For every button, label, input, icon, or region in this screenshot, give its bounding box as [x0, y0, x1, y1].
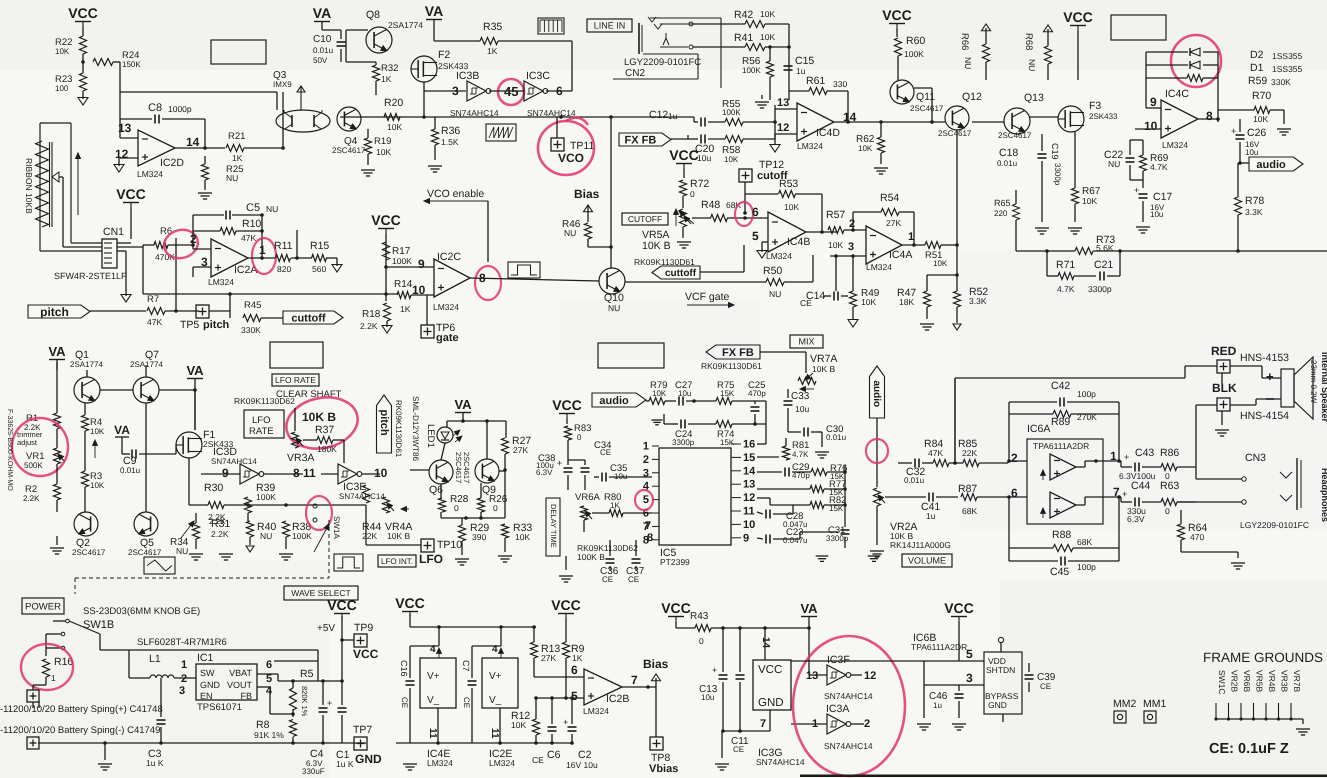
svg-text:100K: 100K	[292, 531, 312, 541]
svg-text:470p: 470p	[748, 389, 766, 398]
svg-text:2SA1774: 2SA1774	[388, 20, 423, 30]
svg-text:1u: 1u	[933, 701, 942, 710]
svg-text:10K: 10K	[515, 532, 530, 542]
svg-text:220: 220	[994, 209, 1008, 218]
svg-text:47K: 47K	[241, 233, 256, 243]
svg-text:4: 4	[492, 644, 498, 655]
svg-text:TP9: TP9	[354, 622, 373, 634]
svg-text:+: +	[327, 698, 332, 708]
svg-text:R54: R54	[880, 192, 899, 204]
svg-text:VCC: VCC	[68, 5, 98, 21]
svg-text:IC1: IC1	[197, 652, 214, 664]
svg-text:-11200/10/20 Battery Sping(+): -11200/10/20 Battery Sping(+) C41748	[0, 704, 163, 715]
svg-text:VR3B: VR3B	[1280, 670, 1290, 693]
svg-text:68K: 68K	[1077, 537, 1092, 547]
svg-text:7: 7	[631, 673, 638, 687]
svg-text:500K: 500K	[24, 461, 43, 470]
svg-text:R26: R26	[489, 494, 508, 505]
svg-text:1u K: 1u K	[146, 758, 164, 768]
svg-text:1: 1	[643, 441, 649, 453]
svg-text:LM324: LM324	[766, 251, 792, 261]
svg-text:4: 4	[430, 644, 436, 655]
svg-text:1u: 1u	[668, 111, 678, 121]
svg-text:11: 11	[303, 466, 316, 480]
svg-text:LM324: LM324	[583, 706, 609, 716]
svg-text:C10: C10	[313, 34, 332, 45]
svg-text:14: 14	[743, 465, 756, 477]
svg-text:D2: D2	[1250, 49, 1264, 61]
svg-text:IC3B: IC3B	[456, 70, 479, 82]
svg-text:R36: R36	[441, 125, 460, 137]
svg-text:1K: 1K	[487, 46, 498, 56]
svg-text:10K: 10K	[1082, 196, 1097, 206]
svg-text:R21: R21	[228, 131, 245, 142]
svg-text:adjust: adjust	[17, 438, 38, 447]
svg-text:1000p: 1000p	[168, 104, 192, 114]
svg-text:SN74AHC14: SN74AHC14	[824, 741, 873, 751]
svg-text:12: 12	[864, 670, 876, 682]
svg-text:+: +	[1231, 126, 1236, 136]
svg-text:50V: 50V	[313, 56, 328, 65]
svg-text:NU: NU	[769, 289, 781, 299]
svg-text:2: 2	[864, 718, 870, 730]
svg-text:cuttoff: cuttoff	[665, 268, 697, 279]
svg-text:13: 13	[743, 479, 755, 491]
svg-text:Vbias: Vbias	[649, 763, 678, 775]
svg-text:LGY2209-0101FC: LGY2209-0101FC	[624, 57, 701, 68]
svg-text:C21: C21	[1094, 259, 1113, 271]
svg-text:CN1: CN1	[103, 226, 124, 238]
svg-text:SN74AHC14: SN74AHC14	[339, 492, 385, 501]
svg-text:560: 560	[312, 264, 326, 274]
svg-text:cuttoff: cuttoff	[291, 312, 326, 324]
svg-text:-11200/10/20 Battery Sping(-): -11200/10/20 Battery Sping(-) C41749	[0, 725, 160, 736]
svg-text:100K B: 100K B	[577, 552, 605, 562]
svg-text:0.01u: 0.01u	[826, 433, 846, 442]
svg-text:C5: C5	[246, 202, 260, 214]
svg-text:CE: 0.1uF Z: CE: 0.1uF Z	[1209, 741, 1289, 757]
svg-text:R48: R48	[701, 199, 720, 211]
svg-text:SLF6028T-4R7M1R6: SLF6028T-4R7M1R6	[137, 637, 227, 648]
svg-text:F3: F3	[1089, 100, 1101, 112]
svg-text:R66: R66	[959, 33, 970, 50]
svg-text:Q12: Q12	[962, 91, 982, 103]
svg-text:+: +	[712, 665, 717, 675]
svg-text:MM2: MM2	[1113, 698, 1136, 710]
svg-text:5: 5	[966, 647, 973, 661]
svg-text:audio: audio	[599, 395, 629, 407]
svg-text:91K 1%: 91K 1%	[254, 730, 284, 740]
svg-text:2SC4617: 2SC4617	[332, 146, 366, 155]
svg-text:BLK: BLK	[1212, 381, 1237, 395]
svg-text:9: 9	[1150, 95, 1157, 109]
svg-text:CE: CE	[600, 448, 611, 457]
svg-text:9: 9	[743, 532, 749, 544]
svg-text:+5V: +5V	[317, 623, 335, 634]
svg-text:V+: V+	[489, 671, 502, 682]
svg-text:2SC4617: 2SC4617	[910, 104, 944, 113]
svg-text:IC6A: IC6A	[1027, 423, 1050, 435]
svg-text:C33: C33	[791, 391, 810, 402]
svg-text:NU: NU	[564, 228, 576, 238]
svg-text:FX FB: FX FB	[625, 134, 657, 146]
svg-text:IC3F: IC3F	[827, 654, 850, 666]
svg-text:10K: 10K	[387, 122, 402, 132]
svg-text:VCC: VCC	[353, 647, 379, 661]
svg-text:VCC: VCC	[395, 595, 425, 611]
svg-text:3: 3	[848, 241, 854, 253]
svg-text:10K: 10K	[1253, 114, 1268, 124]
svg-text:C7: C7	[461, 660, 471, 672]
svg-text:+: +	[563, 717, 568, 727]
svg-text:R5: R5	[300, 668, 314, 680]
svg-text:+: +	[1134, 185, 1139, 195]
svg-text:R45: R45	[244, 300, 261, 311]
svg-text:LFO: LFO	[252, 415, 270, 426]
svg-text:IC4D: IC4D	[816, 127, 840, 139]
svg-text:SFW4R-2STE1LF: SFW4R-2STE1LF	[54, 271, 127, 281]
svg-text:R37: R37	[315, 424, 334, 436]
svg-text:5: 5	[266, 673, 272, 685]
svg-text:VA: VA	[800, 601, 818, 616]
svg-text:15K: 15K	[720, 438, 735, 447]
svg-text:IC2C: IC2C	[437, 251, 461, 263]
svg-text:1.5K: 1.5K	[441, 137, 459, 147]
svg-text:Bias: Bias	[643, 657, 669, 671]
svg-text:0: 0	[699, 636, 704, 646]
svg-text:15K: 15K	[720, 389, 735, 398]
svg-text:R10: R10	[242, 218, 261, 230]
svg-text:16V 10u: 16V 10u	[566, 760, 598, 770]
svg-text:10K B: 10K B	[642, 240, 671, 252]
svg-text:NU: NU	[176, 546, 188, 556]
svg-text:F2: F2	[438, 49, 450, 61]
svg-text:27K: 27K	[541, 653, 556, 663]
svg-text:10u: 10u	[701, 693, 714, 702]
svg-text:VR3A: VR3A	[287, 452, 314, 464]
svg-text:+: +	[557, 458, 562, 468]
svg-text:1K: 1K	[381, 74, 392, 84]
svg-text:RIBBON 10KB: RIBBON 10KB	[24, 158, 34, 214]
svg-text:NU: NU	[226, 173, 238, 183]
svg-text:VCO enable: VCO enable	[427, 188, 484, 200]
svg-text:VOLUME: VOLUME	[908, 556, 946, 566]
svg-text:TPA6111A2DR: TPA6111A2DR	[1033, 441, 1089, 451]
svg-text:1K: 1K	[610, 501, 620, 510]
svg-text:R41: R41	[734, 32, 753, 44]
svg-text:C44: C44	[1131, 480, 1150, 492]
svg-text:+: +	[1124, 452, 1129, 462]
svg-text:VCC: VCC	[882, 7, 912, 23]
svg-text:470: 470	[1190, 532, 1204, 542]
svg-text:D1: D1	[1250, 62, 1264, 74]
svg-text:5: 5	[643, 494, 649, 506]
svg-text:CE: CE	[1040, 682, 1051, 691]
svg-text:+: +	[1122, 489, 1127, 499]
svg-text:1: 1	[51, 673, 56, 683]
svg-text:LM324: LM324	[433, 302, 459, 312]
svg-text:2: 2	[1011, 451, 1018, 465]
svg-text:820K 1%: 820K 1%	[300, 686, 309, 717]
svg-text:12: 12	[115, 147, 129, 161]
svg-text:23mm 0.2W: 23mm 0.2W	[1309, 360, 1318, 404]
svg-text:10K: 10K	[784, 202, 799, 212]
svg-text:RK09K1130D61: RK09K1130D61	[394, 400, 403, 458]
svg-text:10K: 10K	[55, 47, 70, 56]
svg-text:pitch: pitch	[40, 305, 69, 319]
svg-text:VCC: VCC	[551, 597, 581, 613]
svg-text:VOUT: VOUT	[227, 680, 253, 690]
svg-text:10K: 10K	[511, 720, 526, 730]
svg-text:2SC4617: 2SC4617	[454, 452, 463, 483]
svg-text:10K: 10K	[933, 259, 948, 268]
svg-text:LM324: LM324	[1162, 140, 1188, 150]
svg-text:11: 11	[427, 728, 438, 739]
svg-text:VR6B: VR6B	[1242, 670, 1252, 693]
svg-text:68K: 68K	[962, 506, 977, 516]
svg-text:RATE: RATE	[249, 426, 274, 437]
svg-text:10K: 10K	[90, 427, 105, 436]
svg-text:3: 3	[966, 671, 973, 685]
svg-text:VCC: VCC	[371, 212, 401, 228]
svg-text:3300p: 3300p	[672, 438, 695, 447]
svg-text:SN74AHC14: SN74AHC14	[824, 691, 873, 701]
svg-text:13: 13	[806, 670, 818, 682]
svg-text:VCC: VCC	[116, 186, 146, 202]
svg-text:R65: R65	[994, 198, 1011, 208]
svg-text:12: 12	[777, 122, 789, 134]
svg-text:R71: R71	[1056, 259, 1075, 271]
svg-text:11: 11	[489, 728, 500, 739]
svg-text:8: 8	[1206, 109, 1213, 123]
svg-text:gate: gate	[436, 332, 459, 344]
svg-text:SW1C: SW1C	[1217, 670, 1227, 695]
svg-text:6: 6	[752, 205, 759, 219]
svg-text:14: 14	[186, 135, 200, 149]
svg-text:VA: VA	[313, 5, 331, 21]
svg-text:SML-D12Y3WT86: SML-D12Y3WT86	[411, 396, 420, 461]
svg-text:VCC: VCC	[758, 664, 782, 676]
svg-text:NU: NU	[260, 531, 272, 541]
svg-text:Q8: Q8	[366, 9, 380, 21]
svg-text:6: 6	[571, 663, 578, 677]
svg-text:LGY2209-0101FC: LGY2209-0101FC	[1240, 520, 1309, 530]
svg-text:1K: 1K	[400, 304, 411, 314]
svg-text:POWER: POWER	[25, 601, 61, 612]
svg-text:CN2: CN2	[625, 68, 645, 79]
svg-text:1: 1	[181, 659, 187, 671]
svg-text:LFO: LFO	[419, 552, 443, 566]
svg-text:R89: R89	[1051, 416, 1070, 428]
svg-text:100K: 100K	[742, 66, 761, 75]
svg-text:R53: R53	[779, 178, 798, 190]
svg-text:2: 2	[849, 218, 855, 230]
svg-text:6.3V: 6.3V	[1127, 514, 1145, 524]
svg-text:LED1: LED1	[425, 424, 436, 448]
svg-text:R7: R7	[147, 294, 159, 305]
svg-text:3300p: 3300p	[1088, 284, 1112, 294]
svg-text:IC4B: IC4B	[787, 236, 810, 248]
svg-text:1u K: 1u K	[336, 759, 354, 769]
svg-text:R50: R50	[763, 265, 782, 277]
svg-text:LM324: LM324	[208, 277, 234, 287]
svg-text:1: 1	[259, 243, 266, 257]
svg-text:4.7K: 4.7K	[792, 450, 809, 459]
svg-text:C43: C43	[1135, 447, 1154, 459]
svg-text:330K: 330K	[1271, 77, 1291, 87]
svg-text:R18: R18	[362, 309, 381, 320]
svg-text:R70: R70	[1252, 90, 1271, 102]
svg-text:NU: NU	[1108, 159, 1120, 169]
svg-text:10K B: 10K B	[302, 410, 336, 424]
svg-text:2SK433: 2SK433	[1089, 112, 1118, 121]
svg-text:SN74AHC14: SN74AHC14	[756, 757, 805, 767]
svg-text:9: 9	[418, 257, 425, 271]
svg-text:0.01u: 0.01u	[904, 476, 924, 485]
svg-text:R35: R35	[483, 21, 502, 33]
svg-text:VCF gate: VCF gate	[685, 291, 730, 303]
svg-text:Q13: Q13	[1024, 92, 1044, 104]
svg-text:VCC: VCC	[1063, 9, 1093, 25]
svg-text:LFO INT.: LFO INT.	[381, 557, 413, 566]
svg-text:V+: V+	[427, 671, 440, 682]
svg-text:10: 10	[374, 466, 388, 480]
svg-text:5: 5	[752, 229, 759, 243]
svg-text:10: 10	[1144, 119, 1158, 133]
svg-text:GND: GND	[200, 680, 221, 690]
svg-text:IC3A: IC3A	[826, 703, 849, 715]
svg-text:R19: R19	[374, 136, 391, 147]
svg-text:R20: R20	[384, 97, 403, 109]
svg-text:16: 16	[743, 439, 755, 451]
svg-text:PT2399: PT2399	[660, 557, 690, 567]
svg-text:LM324: LM324	[797, 141, 823, 151]
svg-text:GND: GND	[988, 700, 1007, 710]
svg-text:1u: 1u	[926, 511, 936, 521]
svg-text:pitch: pitch	[203, 319, 230, 331]
svg-text:1u: 1u	[796, 66, 806, 76]
svg-text:R88: R88	[1052, 529, 1071, 541]
svg-text:IC3C: IC3C	[526, 70, 550, 82]
svg-text:0.01u: 0.01u	[120, 466, 140, 475]
svg-text:2SC4617: 2SC4617	[938, 129, 972, 138]
svg-text:CE: CE	[602, 575, 613, 584]
svg-text:11: 11	[743, 506, 755, 518]
svg-text:6: 6	[266, 659, 272, 671]
svg-text:0.01u: 0.01u	[313, 46, 333, 55]
svg-text:CE: CE	[800, 298, 812, 308]
svg-text:R15: R15	[310, 240, 329, 252]
svg-text:MM1: MM1	[1143, 698, 1166, 710]
svg-text:100K: 100K	[722, 108, 741, 117]
svg-text:2SC4617: 2SC4617	[72, 548, 106, 557]
svg-text:VCC: VCC	[327, 597, 357, 613]
svg-text:10: 10	[743, 519, 755, 531]
svg-text:10u: 10u	[1245, 148, 1258, 157]
svg-text:R61: R61	[806, 75, 825, 87]
svg-text:DELAY TIME: DELAY TIME	[549, 504, 558, 548]
svg-text:27K: 27K	[886, 218, 901, 228]
svg-text:TPS61071: TPS61071	[197, 702, 242, 713]
svg-text:VA: VA	[114, 423, 130, 437]
svg-text:100K: 100K	[904, 49, 924, 59]
svg-text:HNS-4154: HNS-4154	[1240, 410, 1289, 422]
svg-text:SN74AHC14: SN74AHC14	[211, 457, 257, 466]
svg-text:Internal Speaker: Internal Speaker	[1320, 352, 1327, 423]
svg-text:C18: C18	[999, 147, 1018, 159]
svg-text:13: 13	[118, 121, 132, 135]
svg-text:390: 390	[472, 532, 486, 542]
svg-text:10K: 10K	[760, 9, 775, 19]
svg-text:RK14J11A000G: RK14J11A000G	[890, 540, 951, 550]
svg-text:NU: NU	[1027, 59, 1037, 71]
svg-text:4.7K: 4.7K	[1150, 162, 1168, 172]
svg-text:22K: 22K	[962, 448, 977, 458]
svg-text:22K: 22K	[362, 531, 377, 541]
svg-text:2.2K: 2.2K	[23, 494, 40, 503]
svg-text:VA: VA	[454, 397, 472, 412]
svg-text:FB: FB	[240, 691, 252, 701]
svg-text:7: 7	[760, 718, 766, 730]
svg-text:VCC: VCC	[944, 600, 974, 616]
svg-text:R28: R28	[450, 494, 469, 505]
svg-text:10K: 10K	[724, 155, 739, 164]
svg-text:+: +	[1266, 369, 1274, 384]
svg-text:VR4B: VR4B	[1267, 670, 1277, 693]
svg-text:0.047u: 0.047u	[783, 536, 807, 545]
svg-text:HNS-4153: HNS-4153	[1240, 352, 1289, 364]
svg-text:0: 0	[690, 189, 695, 199]
svg-text:10K: 10K	[858, 144, 873, 153]
svg-text:7: 7	[643, 521, 649, 533]
svg-text:8: 8	[293, 466, 300, 480]
svg-text:R78: R78	[1245, 195, 1264, 207]
svg-text:3: 3	[179, 685, 185, 697]
svg-text:1: 1	[908, 231, 914, 243]
svg-text:0.01u: 0.01u	[997, 159, 1017, 168]
svg-text:pitch: pitch	[378, 410, 390, 437]
svg-text:LFO RATE: LFO RATE	[275, 375, 316, 385]
svg-text:0: 0	[454, 503, 459, 513]
svg-text:0: 0	[493, 503, 498, 513]
svg-text:10K: 10K	[861, 297, 876, 307]
svg-text:2SA1774: 2SA1774	[70, 360, 103, 369]
svg-text:VCC: VCC	[669, 147, 699, 163]
svg-text:150K: 150K	[122, 60, 141, 69]
svg-text:R14: R14	[394, 279, 413, 290]
svg-text:R86: R86	[1160, 447, 1179, 459]
svg-text:GND: GND	[355, 752, 382, 766]
svg-text:C42: C42	[1051, 380, 1070, 392]
svg-text:C12: C12	[649, 109, 668, 121]
svg-text:CE: CE	[733, 745, 744, 754]
svg-text:4.7K: 4.7K	[1057, 284, 1075, 294]
svg-text:MIX: MIX	[798, 337, 814, 347]
svg-text:R42: R42	[734, 9, 753, 21]
svg-text:C6: C6	[547, 749, 561, 761]
svg-text:100p: 100p	[1077, 389, 1096, 399]
svg-text:IC4C: IC4C	[1165, 88, 1189, 100]
svg-text:R11: R11	[274, 240, 293, 252]
svg-text:180K: 180K	[317, 444, 337, 454]
svg-text:2SA1774: 2SA1774	[130, 360, 163, 369]
svg-text:6: 6	[1011, 486, 1018, 500]
svg-text:8: 8	[643, 534, 649, 546]
svg-text:VCC: VCC	[552, 397, 582, 413]
svg-text:1SS355: 1SS355	[1272, 64, 1303, 74]
svg-text:IC4A: IC4A	[889, 249, 912, 261]
svg-text:VCC: VCC	[661, 600, 691, 616]
